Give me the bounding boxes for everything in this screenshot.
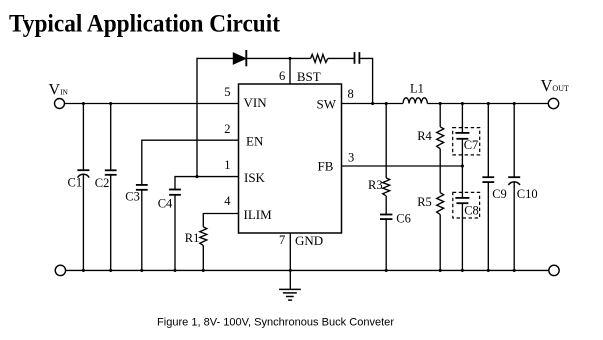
svg-text:2: 2: [224, 122, 230, 136]
inductor L1: [403, 98, 427, 104]
junction out-R4: [439, 102, 442, 105]
svg-text:4: 4: [224, 194, 231, 208]
junction out-C10: [513, 102, 516, 105]
resistor R5: [437, 193, 444, 271]
svg-text:Typical Application Circuit: Typical Application Circuit: [9, 9, 280, 38]
resistor R3: [383, 104, 390, 196]
svg-text:C2: C2: [95, 176, 110, 190]
node GND-right terminal: [549, 265, 559, 275]
wire GND pin: [289, 233, 291, 270]
svg-text:BST: BST: [297, 69, 321, 84]
wire L1 to VOUT: [427, 103, 548, 105]
wire EN: [142, 140, 239, 185]
diode D1: [233, 50, 246, 66]
wire cap down to SW: [359, 58, 372, 103]
junction rail-C2: [109, 269, 112, 272]
svg-text:VIN: VIN: [244, 95, 268, 110]
capacitor C6: [380, 196, 392, 271]
junction VIN-C2: [109, 102, 112, 105]
svg-text:C6: C6: [396, 211, 411, 225]
junction SW-R3: [385, 102, 388, 105]
node VIN terminal: [55, 99, 65, 109]
junction SW-bstcap: [371, 102, 374, 105]
svg-text:L1: L1: [410, 82, 424, 96]
svg-text:FB: FB: [318, 159, 334, 174]
wire VIN rail: [65, 103, 239, 105]
junction out-C9: [487, 102, 490, 105]
svg-text:8: 8: [348, 87, 354, 101]
node VOUT terminal: [548, 98, 558, 108]
capacitor C10: [508, 104, 520, 271]
capacitor C2: [105, 104, 117, 271]
wire diode to resistor: [246, 57, 310, 59]
capacitor C-BST: [355, 52, 360, 64]
ground: [279, 270, 301, 300]
svg-text:R3: R3: [368, 178, 383, 192]
wire BST pin stub: [289, 58, 291, 84]
op-amp U1 IC body: [239, 84, 342, 233]
svg-text:C10: C10: [517, 187, 538, 201]
wire FB: [342, 165, 463, 167]
svg-text:ILIM: ILIM: [244, 207, 273, 222]
junction BST-top: [288, 57, 291, 60]
junction rail-C3: [140, 269, 143, 272]
svg-text:C4: C4: [158, 197, 173, 211]
wire ILIM: [203, 214, 238, 227]
junction out-C7: [461, 102, 464, 105]
junction rail-R5: [439, 269, 442, 272]
capacitor C4: [169, 190, 181, 271]
svg-text:SW: SW: [317, 97, 337, 112]
svg-text:EN: EN: [246, 133, 264, 148]
node GND-left terminal: [55, 265, 65, 275]
junction rail-C8: [461, 269, 464, 272]
svg-text:R1: R1: [185, 231, 200, 245]
svg-text:6: 6: [279, 69, 285, 83]
junction rail-GND: [289, 269, 292, 272]
junction VIN-C1: [82, 102, 85, 105]
junction FB-C8: [461, 164, 464, 167]
svg-text:R4: R4: [417, 129, 432, 143]
svg-text:ISK: ISK: [244, 170, 266, 185]
svg-text:C8: C8: [464, 203, 479, 217]
capacitor C7: [453, 104, 480, 167]
wire SW to L1: [342, 103, 404, 105]
wire resistor to cap: [328, 57, 355, 59]
svg-text:C3: C3: [125, 190, 140, 204]
svg-text:C1: C1: [68, 176, 83, 190]
junction rail-C6: [385, 269, 388, 272]
junction rail-R1: [202, 269, 205, 272]
junction rail-C4: [173, 269, 176, 272]
junction rail-C1: [82, 269, 85, 272]
capacitor C1: [77, 104, 89, 271]
junction ISK-bootstrap: [195, 175, 198, 178]
svg-text:C7: C7: [464, 138, 479, 152]
svg-text:GND: GND: [295, 233, 323, 248]
svg-text:5: 5: [224, 85, 230, 99]
svg-text:3: 3: [348, 150, 354, 164]
wire bootstrap top: [197, 58, 233, 176]
svg-text:C9: C9: [492, 187, 507, 201]
svg-text:1: 1: [224, 158, 230, 172]
junction rail-C10: [513, 269, 516, 272]
resistor R1: [200, 227, 207, 271]
resistor R4: [437, 104, 444, 193]
resistor R-BST: [311, 54, 328, 62]
wire ground rail: [66, 269, 549, 271]
capacitor C9: [482, 104, 494, 271]
capacitor C8: [453, 166, 480, 270]
svg-text:7: 7: [279, 233, 285, 247]
wire ISK: [175, 177, 239, 190]
junction rail-C9: [487, 269, 490, 272]
capacitor C3: [136, 185, 148, 271]
svg-text:R5: R5: [417, 195, 432, 209]
svg-text:Figure 1, 8V- 100V, Synchronou: Figure 1, 8V- 100V, Synchronous Buck Con…: [157, 317, 394, 329]
